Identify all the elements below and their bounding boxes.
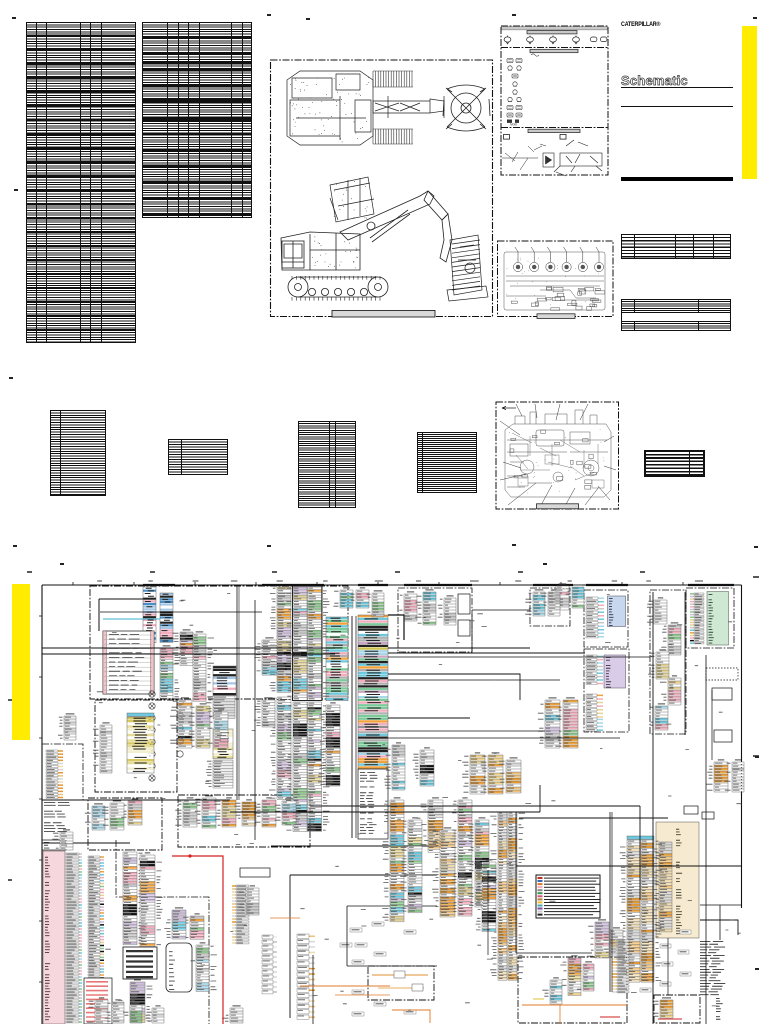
- trunk connector T0: [255, 637, 277, 675]
- yellow highlight bar left: [12, 584, 30, 740]
- component list table D: [417, 432, 477, 493]
- scattered labels: [350, 928, 362, 932]
- chassis harness boundary: [95, 700, 177, 792]
- br column D6: [467, 817, 489, 907]
- yellow highlight bar right: [742, 26, 757, 179]
- top-left corner text: [44, 802, 70, 832]
- right margin relays: [712, 688, 732, 700]
- riser top box: [42, 840, 66, 850]
- riser connector rows: [88, 856, 104, 1020]
- legend divider 2: [501, 127, 608, 129]
- cab connector K4 striped: [213, 666, 236, 696]
- pump relay boxes: [458, 594, 470, 614]
- wire list table 1: [26, 22, 136, 343]
- engine callout leader lines: [500, 404, 616, 507]
- machine top view boom: [373, 96, 444, 118]
- connector C7: [366, 590, 384, 617]
- aux connector A7: [555, 697, 578, 748]
- yellow jumper: [533, 998, 544, 1000]
- br column D1: [382, 797, 404, 921]
- cab connector K5 striped: [213, 729, 233, 759]
- br column D7: [474, 859, 496, 931]
- right lower scattered labels: [660, 944, 671, 948]
- br column D2: [400, 817, 422, 912]
- connector C6: [351, 587, 369, 608]
- harness connector M1: [170, 697, 192, 748]
- pink rows box: [84, 978, 112, 1024]
- legend symbol column: [507, 54, 539, 117]
- loop wires: [271, 845, 437, 847]
- CATERPILLAR logo text: [621, 21, 660, 28]
- left margin dash-dot box: [42, 744, 83, 800]
- connector C8: [548, 583, 569, 610]
- machine side view boom: [340, 191, 452, 262]
- aux connector A2: [480, 752, 503, 794]
- red power wire: [172, 856, 223, 1024]
- switch wire rows lower: [586, 694, 603, 718]
- connector table R2: [621, 299, 731, 331]
- red jumper: [600, 1016, 620, 1018]
- main trunk terminal strip A: [326, 617, 348, 701]
- valve module box: [530, 588, 570, 626]
- cab connector K2: [172, 629, 193, 665]
- engine ECM connector rows: [690, 593, 704, 644]
- lower center appliance box: [518, 957, 627, 1023]
- pump connectors: [399, 591, 417, 621]
- harness dash-dot L: [116, 840, 209, 1024]
- bus wires: [42, 647, 335, 649]
- engine side view drawing: [505, 410, 611, 497]
- bl sparse rows: [262, 935, 277, 994]
- machine ECM panel (tan): [656, 822, 699, 938]
- ECM enclosure box: [686, 588, 734, 648]
- orange stub rows: [612, 940, 629, 993]
- switch panel (lavender): [604, 655, 626, 688]
- engine top view drawing: [504, 247, 605, 310]
- monitor module box: [584, 590, 628, 647]
- br tan pair E1: [490, 812, 507, 980]
- aux connector A1: [462, 752, 485, 794]
- zone header labels: [97, 581, 703, 582]
- engine side extra detail: [512, 433, 604, 488]
- component list table C: [298, 421, 356, 508]
- engine top-view dash-dot frame: [498, 241, 614, 317]
- legend harvester-head symbols row: [504, 36, 607, 44]
- bl cluster boxes: [240, 868, 270, 877]
- boom harness boundary: [178, 795, 310, 847]
- br column D4: [432, 827, 455, 917]
- aux connector A5: [413, 747, 435, 786]
- connector C1: [143, 587, 156, 643]
- svg-text:Note: Note: [510, 123, 517, 127]
- switch wire rows lower2: [586, 718, 603, 731]
- machine figure label bar: [332, 311, 435, 318]
- K4 labels below: [206, 696, 235, 718]
- title underline: [621, 87, 733, 88]
- bottom-left tiny stacks: [87, 997, 108, 1024]
- machine top view tracks comb: [373, 71, 413, 144]
- aux connector A6: [538, 697, 560, 748]
- trunk connector T1: [269, 697, 291, 800]
- main trunk terminal strip B: [358, 615, 388, 769]
- orange stub rows left: [297, 934, 315, 1019]
- trunk twin column left: [269, 587, 291, 692]
- component list table A: [50, 410, 106, 496]
- riser connector col2: [123, 849, 145, 944]
- legend machine-location symbols: [504, 135, 567, 140]
- cab harness boundary: [90, 586, 348, 699]
- left margin connectors: [46, 750, 63, 799]
- G header cyan: [627, 836, 654, 839]
- bl stub rows: [232, 885, 249, 944]
- bl connector B1: [164, 907, 186, 939]
- cab connector K3: [193, 631, 214, 701]
- instrument panel (blue): [608, 596, 626, 627]
- corridor clusters: [647, 597, 667, 624]
- stacks below legend: [587, 919, 609, 958]
- riser col3 lower: [130, 979, 153, 1022]
- inside appliance boxes: [372, 974, 428, 976]
- trunk connector T5: [254, 697, 275, 727]
- relay lamp circles: [149, 691, 183, 781]
- trunk twin column mid1: [285, 587, 307, 700]
- legend relay drawing: [502, 140, 602, 176]
- switch wire rows upper: [586, 655, 603, 685]
- black rows box: [123, 947, 157, 979]
- cab fuse table: [103, 631, 154, 694]
- aux connector A4: [384, 742, 405, 790]
- machine views dash-dot frame: [271, 60, 493, 317]
- br tan tall pair G2: [641, 840, 662, 982]
- component list table E: [644, 450, 705, 477]
- br tan pair E2: [508, 812, 525, 980]
- K5 labels below: [205, 760, 233, 788]
- legend top gray strip: [502, 27, 608, 30]
- trunk connector T4: [318, 702, 340, 786]
- bl connector B3: [196, 942, 217, 991]
- connector C5: [333, 587, 353, 608]
- connector table R1: [621, 234, 731, 259]
- pump module box: [398, 588, 472, 652]
- machine top view felling head: [443, 85, 490, 131]
- cyan feed wire: [103, 618, 160, 620]
- subtitle rule: [621, 106, 733, 107]
- machine side view tracks: [288, 276, 388, 301]
- engine side label bar: [537, 504, 579, 509]
- engine top label bar: [537, 314, 575, 319]
- machine side view body and cab: [281, 232, 360, 270]
- switch module box: [584, 649, 629, 732]
- engine harness connectors: [85, 803, 105, 830]
- br column D3: [421, 797, 444, 852]
- wire color legend table: [536, 875, 600, 918]
- legend symbol chart frame: [501, 26, 608, 175]
- valve module connectors: [525, 589, 545, 616]
- bl connector B2: [183, 913, 204, 939]
- trunk connector T3: [308, 702, 330, 832]
- rounded relay box: [166, 943, 192, 992]
- schematic sheet frame: [42, 585, 742, 1024]
- small label noise: [97, 593, 742, 1011]
- right module corridor: [650, 590, 686, 734]
- br column D5: [450, 797, 472, 916]
- strip B lower whitebox: [358, 769, 388, 839]
- bottom right appliance box: [654, 995, 700, 1023]
- harness connector M2: [188, 703, 210, 748]
- wire list table 2: [142, 22, 252, 218]
- registration marks: [0, 0, 768, 1]
- far right tiny cluster: [684, 806, 698, 814]
- cab riser panel (pink): [43, 851, 65, 1024]
- connector C2: [160, 593, 173, 642]
- machine side view cab bundle: [330, 177, 374, 222]
- machine side view felling head attachment: [447, 235, 488, 301]
- monitor wire rows: [586, 597, 604, 638]
- riser label column: [66, 853, 82, 1023]
- heavy black bar: [621, 177, 733, 181]
- connector C9: [566, 584, 584, 608]
- engine ECM panel (green): [707, 592, 729, 646]
- orange harness wires: [300, 985, 390, 987]
- aux connector A3: [499, 757, 521, 793]
- machine top view body: [287, 71, 373, 145]
- br tan tall pair G1: [619, 840, 640, 982]
- engine harness boundary: [88, 798, 162, 850]
- trunk twin column mid2: [308, 587, 330, 700]
- component list table B: [168, 439, 228, 475]
- lower left appliance box: [368, 966, 434, 1000]
- Schematic title (outline text): [621, 73, 688, 88]
- dotted relay box: [706, 668, 738, 680]
- engine side-view dash-dot frame: [496, 402, 619, 509]
- cab connector K1: [160, 645, 181, 698]
- margin ticks: [8, 572, 759, 880]
- frame heavy segments: [143, 584, 734, 586]
- legend divider: [501, 47, 608, 49]
- chassis yellow block: [127, 717, 154, 773]
- harness connector M3: [207, 709, 228, 748]
- engine direction arrow: [502, 406, 516, 409]
- br parts list text: [700, 941, 725, 995]
- boom harness connectors: [175, 797, 197, 827]
- ECM panel internal connector: [651, 842, 672, 932]
- trunk connector T2: [285, 702, 307, 832]
